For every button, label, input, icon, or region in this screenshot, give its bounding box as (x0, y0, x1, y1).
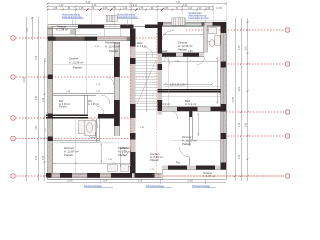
svg-text:Flur: Flur (176, 162, 180, 165)
stair walk line (146, 52, 148, 112)
bottom wall black segment 4 (111, 173, 132, 178)
blue note bottom 3 (192, 185, 216, 188)
svg-text:1,98: 1,98 (79, 8, 84, 10)
svg-text:Parkett: Parkett (64, 153, 73, 157)
bottom interior wall black segment 1 (168, 166, 187, 170)
tick marks on top chains (25, 2, 249, 177)
room label Diele left (66, 91, 101, 93)
top-left wall black segment B (120, 25, 134, 29)
svg-text:Parkett: Parkett (178, 47, 187, 51)
entrance stair bump (172, 18, 186, 26)
grid bubble left y77 (11, 75, 16, 80)
tick marks on right chains (234, 21, 249, 177)
bottom wall black segment 1 (46, 173, 52, 178)
interior dim vertical x101 (100, 143, 102, 163)
dimension chain right line 1 (234, 18, 236, 181)
svg-text:Parkett: Parkett (109, 49, 118, 53)
left unit top wall hatched segment (56, 37, 85, 41)
dimension chain bottom line (47, 181, 226, 183)
partition x86 upper corridor (85, 95, 88, 114)
WC partition x96.5 (97, 119, 100, 143)
red grid line bottom y176 (16, 175, 284, 177)
central wall black segment 1 (130, 29, 136, 47)
building outer walls thin outline (48, 26, 227, 179)
door arc right unit mid (170, 111, 178, 119)
right unit bath partition x196.5 (204, 26, 208, 53)
red grid overlay segments (52, 38, 285, 176)
extension lines above building (48, 3, 227, 26)
svg-text:1,86: 1,86 (164, 8, 169, 10)
left partition black segment 1 (114, 57, 120, 77)
canopy line (183, 19, 226, 21)
window lines bottom band gaps (76, 175, 162, 177)
bottom wall black segment 5 (135, 173, 155, 178)
terrace step symbol (71, 30, 76, 35)
red grid line right y112 (226, 111, 284, 113)
svg-text:3,43: 3,43 (92, 5, 97, 7)
left partition black segment 2 (114, 100, 120, 126)
terrace bottom edge (48, 33, 98, 35)
right wall black pier y136 (221, 133, 227, 139)
svg-text:2,11: 2,11 (133, 5, 138, 7)
left unit vertical partition x114 (114, 42, 120, 136)
red grid vertical x156.3 (155, 33, 157, 173)
svg-text:1,36: 1,36 (43, 97, 45, 102)
svg-text:A: 2,98 m²: A: 2,98 m² (56, 27, 68, 31)
svg-text:Fliesen: Fliesen (150, 158, 159, 162)
interior dim vertical x198 (197, 113, 199, 136)
right wall black pier y22 (221, 22, 227, 33)
kitchen counter (120, 147, 130, 166)
room label Terasse bottom-right (176, 162, 215, 179)
stair cut line (137, 60, 156, 104)
bottom micro numbers (67, 180, 193, 182)
svg-text:2,48: 2,48 (246, 122, 248, 127)
dimension chain right line 3 (247, 18, 249, 181)
svg-text:3,06: 3,06 (43, 155, 45, 160)
svg-text:A: 10,4 m²: A: 10,4 m² (157, 102, 170, 106)
svg-text:1,40: 1,40 (59, 5, 64, 7)
dimension numbers left (rotated) (24, 27, 47, 161)
dimension chain left line 2 (31, 17, 33, 40)
room label Essen bottom-center (118, 135, 197, 162)
micro text above wall (59, 100, 99, 109)
right partition y106 black segment 2 (211, 107, 221, 112)
stairwell label Diele (137, 42, 147, 48)
stairwell right wall black segment 3 (158, 64, 163, 70)
bath fixtures right unit (209, 28, 221, 47)
svg-text:4,42: 4,42 (183, 5, 188, 7)
svg-text:1,99: 1,99 (188, 51, 193, 53)
svg-text:1,185: 1,185 (27, 27, 29, 33)
door arc left room (96, 31, 205, 119)
svg-text:3,48: 3,48 (36, 95, 38, 100)
left unit top wall window lines (97, 37, 127, 39)
svg-text:A: 12,96 m²: A: 12,96 m² (105, 45, 120, 49)
right unit partition y52.5 (162, 53, 204, 57)
stair treads (136, 52, 158, 112)
grid bubble right y112 (285, 110, 290, 115)
svg-text:1,01: 1,01 (188, 8, 193, 10)
right unit top wall band y22 (158, 22, 227, 26)
left unit top wall gray end segment (127, 37, 134, 41)
left wall black pier grid137 (48, 137, 53, 142)
tick marks on left chains (25, 17, 46, 177)
dimension numbers top (53, 2, 223, 10)
door arc right partition (180, 147, 190, 157)
svg-text:bodentiefes Fenster: bodentiefes Fenster (62, 16, 83, 19)
door arc entry right (162, 31, 171, 40)
svg-text:bodentiefes Fenster: bodentiefes Fenster (117, 16, 138, 19)
right partition y52.5 black segment 1 (162, 53, 176, 57)
svg-text:bodentiefes Fenster: bodentiefes Fenster (189, 17, 210, 20)
blue note bottom 2 (146, 185, 172, 188)
blue note bottom 1 (84, 185, 113, 188)
blue note top-left (62, 14, 84, 20)
left unit partition y93.5 (53, 94, 115, 96)
svg-text:2,26 1,01 2,59: 2,26 1,01 2,59 (170, 85, 185, 87)
interior dim vertical x217 (216, 57, 218, 104)
svg-text:2,36: 2,36 (239, 122, 241, 127)
bottom wall band left unit (48, 173, 162, 178)
left unit beam bar upper y114.4 (46, 114, 88, 115)
dimension numbers right (rotated) (233, 45, 248, 159)
right wall black pier y64 (221, 62, 227, 68)
svg-text:3,38: 3,38 (36, 55, 38, 60)
central wall black segment 4 (130, 133, 136, 140)
svg-text:1,99: 1,99 (206, 8, 211, 10)
right wall black pier y166 (221, 163, 227, 170)
dimension chain left line 3 (37, 17, 39, 181)
right wall black pier y112 (221, 104, 227, 112)
grid bubble left y176 (11, 174, 16, 179)
bottom wall window lines (52, 175, 112, 177)
striped vent left (106, 15, 117, 22)
svg-text:A: 12,06 m²: A: 12,06 m² (69, 61, 84, 65)
svg-text:3,61: 3,61 (246, 45, 248, 50)
stairwell right wall black segment 2 (158, 100, 163, 111)
svg-text:Parkett: Parkett (160, 50, 168, 53)
dimension chain right line 2 (240, 18, 242, 181)
bath sub line (207, 40, 221, 42)
interior dim line y84 right unit (163, 83, 213, 85)
door arc right unit top (197, 57, 205, 65)
bottom wall black segment 3 (87, 173, 100, 178)
blue leader lines bottom (100, 180, 205, 185)
svg-text:A: 1,95 m²: A: 1,95 m² (88, 103, 99, 106)
svg-text:2,26: 2,26 (103, 8, 108, 10)
right unit top wall black segment 3 (213, 22, 223, 26)
svg-text:7,46: 7,46 (176, 2, 181, 4)
left wall black pier grid38 (48, 37, 53, 41)
svg-text:3,065: 3,065 (187, 180, 193, 182)
entrance wall black bar (145, 25, 162, 28)
right wall window lines (222, 33, 224, 163)
dimension chain left line 1 (26, 17, 248, 181)
top-left terrace front line (48, 25, 134, 29)
svg-text:Parkett: Parkett (73, 66, 82, 70)
svg-text:3,99: 3,99 (239, 154, 241, 159)
right unit vertical partition x189 (189, 111, 192, 117)
svg-text:Schiebetüranlage: Schiebetüranlage (84, 185, 103, 188)
red grid line D left y38 (16, 37, 157, 39)
right partition y106 black segment 1 (177, 107, 198, 112)
mid room partition x187 (186, 57, 188, 89)
bottom-right terrace outline (162, 170, 226, 180)
interior thin guide lines right unit (167, 57, 169, 107)
left wall hatch (48, 39, 53, 169)
right unit top wall window lines (163, 23, 172, 25)
room label Zimmer left (69, 41, 120, 70)
door arc hall (106, 77, 114, 85)
svg-text:3,36: 3,36 (239, 45, 241, 50)
left unit top wall black segment 1 (48, 37, 56, 41)
right unit partition y106 (162, 107, 221, 112)
dimension chain top line 1 (47, 4, 226, 183)
thin line y96 right unit (162, 95, 221, 97)
svg-text:3,36: 3,36 (36, 155, 38, 160)
left unit top wall black segment 2 (85, 37, 98, 41)
room label Schlafen right (178, 41, 193, 52)
interior thin guide lines left unit (53, 42, 221, 173)
grid bubble left D (11, 28, 290, 179)
red grid line C right y30 (16, 30, 284, 176)
svg-text:Parkett: Parkett (182, 142, 191, 146)
blue note top-center (117, 14, 139, 20)
dimension chain top line 2 (47, 6, 213, 8)
red grid line right y136 (222, 135, 284, 137)
blue leader line 2 (126, 20, 128, 27)
svg-text:1,85: 1,85 (36, 125, 38, 130)
right unit top wall black segment 2 (202, 22, 205, 26)
WC bottom wall line pair (53, 141, 100, 143)
bottom interior wall black segment 2 (196, 166, 215, 170)
right outer wall band (221, 22, 227, 169)
grid bubble right y176 (285, 174, 290, 179)
svg-text:A: 6,2 m²: A: 6,2 m² (185, 102, 196, 106)
red grid line left y118 (16, 117, 130, 119)
svg-text:1,26: 1,26 (123, 8, 128, 10)
door arc mid room (162, 57, 170, 65)
grid bubble right y30 (285, 28, 290, 33)
beam bar upper y89 (158, 89, 221, 91)
door arc stair top (143, 47, 153, 57)
grid bubble left y138.5 (11, 136, 16, 141)
svg-text:1,48: 1,48 (53, 8, 58, 10)
stairwell right wall black segment (158, 25, 163, 54)
grid bubble right y64 (285, 62, 290, 67)
grid bubble right y136 (285, 134, 290, 139)
svg-text:13,98: 13,98 (24, 76, 26, 82)
top-left wall black segment A (78, 25, 104, 29)
window line row1 (104, 25, 120, 27)
svg-text:4,69: 4,69 (239, 86, 241, 91)
dimension chain top line 3 (47, 9, 213, 11)
left unit wall black segment x98 (98, 114, 120, 119)
left outer wall band (48, 26, 53, 178)
grid bubble left y118 (11, 116, 16, 121)
interior dimension line left room bottom (53, 162, 132, 164)
central wall black segment 2 (130, 58, 136, 64)
beam bar lower y91.3 (158, 91, 221, 92)
svg-text:Schiebetüranlage: Schiebetüranlage (192, 185, 211, 188)
right unit top wall black segment 1 (158, 22, 164, 26)
door arc beam gap (89, 118, 99, 128)
red grid vertical x130.5 (130, 33, 132, 173)
bottom wall black segment 2 (60, 173, 72, 178)
terrace right edge (75, 28, 77, 37)
left wall black pier grid118 (48, 114, 53, 118)
red grid line left y138.5 (16, 138, 130, 140)
window jamb lines row2 (96, 37, 98, 41)
svg-text:Fliesen: Fliesen (118, 153, 127, 157)
blue note top-right (189, 12, 210, 20)
right partition y52.5 black segment 2 (183, 53, 199, 57)
window jamb lines row1 (104, 25, 106, 37)
svg-text:1,78: 1,78 (139, 8, 144, 10)
interior dim line y34 top right unit (163, 33, 204, 35)
room label Wohnen bottom-left (64, 146, 79, 157)
svg-text:Schiebetüranlage: Schiebetüranlage (146, 185, 165, 188)
red grid line left y77 (16, 76, 160, 78)
central stair wall band x130 (130, 29, 136, 177)
svg-text:8,43: 8,43 (86, 2, 91, 4)
kitchen sink fixtures bottom (107, 165, 129, 172)
room label Zimmer bottom-right (157, 99, 196, 106)
bathtub central (85, 120, 96, 136)
svg-text:4,235: 4,235 (67, 180, 73, 182)
right unit bottom interior wall y165.5 (162, 166, 221, 170)
left wall black pier grid77 (48, 75, 53, 80)
room label Terasse top-left (56, 24, 68, 31)
left unit top wall band y38 (48, 37, 134, 41)
interior dim line y61 right unit (162, 60, 219, 62)
right wall hatch (221, 35, 227, 166)
blue leader line 1 (71, 20, 73, 27)
central wall black segment 3 (130, 104, 136, 118)
svg-text:Fliesen: Fliesen (59, 106, 67, 109)
svg-text:14,38: 14,38 (233, 96, 235, 102)
blue leader line 3 (204, 20, 206, 23)
door arc kitchen (96, 106, 104, 114)
dimension chain left line 4 (44, 58, 46, 181)
left unit beam bar lower y117 (46, 117, 88, 118)
svg-text:1,135: 1,135 (216, 8, 222, 10)
room label Wohnen right mid (160, 50, 193, 87)
central wall black segment 5 (130, 152, 136, 177)
interior dimension micro text (95, 30, 180, 171)
stairwell right wall band x157.5 (158, 25, 163, 115)
red grid line right y64 (228, 63, 284, 65)
WC fixtures left unit (78, 121, 96, 138)
